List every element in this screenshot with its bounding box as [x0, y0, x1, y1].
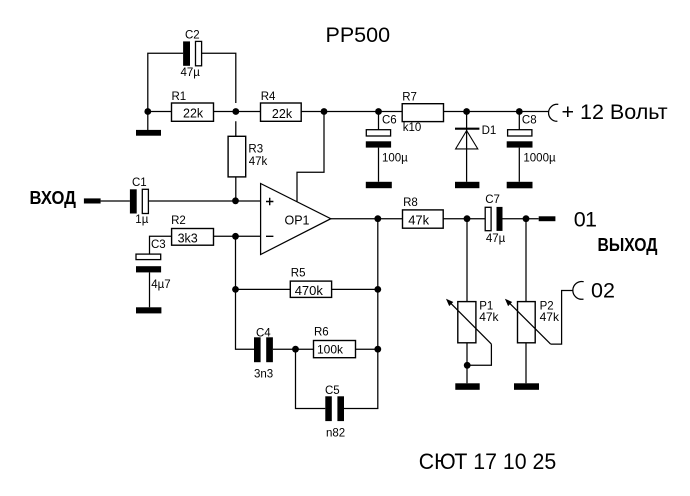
svg-text:R1: R1 [172, 91, 187, 103]
node C4 R6 left [292, 346, 299, 353]
label PP500 [326, 23, 391, 47]
svg-text:47k: 47k [479, 310, 499, 324]
node F rail C8 [516, 108, 523, 115]
svg-text:470k: 470k [295, 283, 324, 298]
node C7 right P2 [523, 215, 530, 222]
node A R1 left [144, 108, 151, 115]
wire V+ staircase [297, 112, 324, 203]
svg-text:1µ: 1µ [135, 214, 148, 226]
ground G3 [366, 182, 392, 188]
node R8 right P1 [464, 215, 471, 222]
resistor R3 [228, 136, 267, 177]
svg-text:OP1: OP1 [285, 213, 310, 227]
svg-text:C5: C5 [325, 385, 340, 397]
capacitor C2 [181, 30, 202, 80]
wire C2 loop right [202, 53, 236, 103]
input terminal [84, 198, 101, 203]
svg-text:C8: C8 [522, 115, 537, 127]
svg-text:ВЫХОД: ВЫХОД [598, 235, 658, 255]
wire P1 wiper tie [467, 344, 491, 365]
svg-text:C2: C2 [185, 30, 200, 42]
svg-text:R2: R2 [171, 215, 186, 227]
svg-text:3k3: 3k3 [178, 231, 198, 245]
node D rail C6 [375, 108, 382, 115]
svg-text:47k: 47k [408, 212, 429, 227]
connector 02 [573, 281, 584, 299]
resistor R5 [290, 268, 331, 299]
node output R8 left [374, 215, 381, 222]
capacitor C7 [485, 194, 505, 245]
capacitor C6 [366, 115, 408, 165]
svg-text:47µ: 47µ [181, 67, 201, 79]
svg-text:C7: C7 [485, 194, 500, 206]
wire minus node down to R5 and C4 [236, 236, 255, 349]
wire P2 top [525, 219, 527, 302]
node C rail V+ [321, 108, 328, 115]
svg-text:4µ7: 4µ7 [151, 279, 170, 291]
wire D1 branch [466, 112, 468, 182]
svg-text:47k: 47k [540, 310, 560, 324]
wire C1 to plus input [148, 200, 260, 202]
svg-text:n82: n82 [326, 428, 345, 440]
wire C4 right to node [273, 348, 314, 350]
svg-text:47µ: 47µ [486, 233, 506, 245]
node R5 right feedback [374, 286, 381, 293]
wire top rail [148, 111, 549, 113]
resistor R8 [403, 197, 444, 228]
wire P2 bottom [525, 343, 527, 384]
svg-text:C1: C1 [132, 177, 147, 189]
svg-text:1000µ: 1000µ [523, 153, 556, 165]
node minus input [232, 233, 239, 240]
svg-text:02: 02 [591, 278, 615, 302]
capacitor C3 [136, 239, 171, 291]
wire C3 to ground [149, 272, 151, 307]
svg-text:R8: R8 [403, 197, 418, 209]
ground G2 [136, 307, 161, 313]
svg-text:01: 01 [574, 207, 597, 231]
wire C5 branch [296, 349, 326, 408]
node B rail R3 [232, 108, 239, 115]
label vkhod [30, 188, 77, 208]
node P1 wiper [464, 362, 471, 369]
capacitor C5 [325, 385, 345, 440]
svg-text:k10: k10 [403, 122, 422, 134]
op-amp OP1 [261, 184, 331, 255]
ground G1 [136, 130, 161, 136]
svg-text:R4: R4 [261, 91, 276, 103]
wire R2 to minus input [214, 235, 261, 237]
svg-text:22k: 22k [272, 107, 293, 121]
wire R3 to noninverting input [235, 121, 237, 201]
wire R5 right [332, 288, 378, 290]
resistor R1 [172, 91, 214, 121]
output terminal [539, 216, 556, 221]
resistor R4 [261, 91, 302, 121]
wire C8 branch [518, 112, 520, 182]
wire P1 top [466, 219, 468, 302]
wire feedback vertical [344, 219, 378, 409]
svg-text:ВХОД: ВХОД [30, 188, 77, 208]
node R6 right feedback [374, 346, 381, 353]
svg-text:D1: D1 [482, 125, 497, 137]
svg-text:R6: R6 [314, 327, 329, 339]
label 02 [591, 278, 615, 302]
svg-text:22k: 22k [183, 107, 204, 121]
wire R5 left [236, 288, 291, 290]
node R5 left [232, 286, 239, 293]
svg-text:47k: 47k [249, 156, 268, 168]
svg-text:R7: R7 [402, 91, 417, 103]
svg-text:PP500: PP500 [326, 23, 391, 47]
wire P1 bottom [466, 343, 468, 384]
wire C6 branch [378, 112, 380, 182]
wire R6 right [356, 348, 378, 350]
ground G6 [455, 383, 479, 390]
node plus input [232, 197, 239, 204]
resistor R6 [314, 327, 356, 358]
potentiometer P1 [446, 299, 500, 344]
potentiometer P2 [505, 299, 560, 344]
svg-text:R3: R3 [248, 144, 263, 156]
svg-text:C6: C6 [382, 115, 397, 127]
svg-text:100µ: 100µ [382, 153, 408, 165]
label SYuT 17 10 25 [419, 449, 557, 474]
svg-text:R5: R5 [291, 268, 306, 280]
wire ground stub R1 left [147, 112, 149, 131]
wire C2 loop left [148, 53, 183, 111]
label vykhod [598, 235, 658, 255]
ground G5 [507, 182, 533, 189]
label 01 [574, 207, 597, 231]
wire R2 left to C3 [150, 236, 172, 254]
connector +12V [549, 104, 559, 121]
wire P2 wiper to connector 02 [551, 291, 573, 345]
capacitor C8 [507, 115, 556, 165]
svg-text:3n3: 3n3 [254, 369, 273, 381]
resistor R2 [171, 215, 213, 245]
resistor R7 [402, 91, 443, 134]
wire input terminal to C1 [101, 200, 130, 202]
label +12 Volt [562, 100, 668, 124]
svg-text:C3: C3 [151, 239, 166, 251]
node E rail D1 [463, 108, 470, 115]
capacitor C4 [254, 327, 273, 380]
capacitor C1 [130, 177, 149, 226]
svg-text:C4: C4 [256, 327, 271, 339]
svg-text:СЮТ 17 10 25: СЮТ 17 10 25 [419, 449, 557, 474]
diode D1 [455, 125, 496, 149]
ground G4 [455, 182, 479, 188]
ground G7 [514, 383, 539, 390]
svg-text:+ 12 Вольт: + 12 Вольт [562, 100, 668, 124]
svg-text:100k: 100k [317, 343, 344, 357]
wire output rail [331, 218, 539, 220]
